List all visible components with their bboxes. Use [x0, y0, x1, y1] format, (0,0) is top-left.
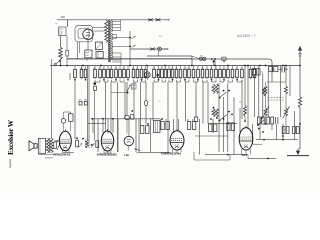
svg-text:AW: AW — [61, 15, 66, 19]
cap arrow a — [79, 143, 83, 148]
wire antenna coil feed — [299, 66, 301, 97]
capacitor row C20 — [257, 117, 260, 124]
capacitor C1 filter 4uF — [85, 50, 92, 58]
resistor R29 — [202, 66, 204, 70]
capacitor C12 electrolytic — [281, 67, 283, 73]
resistor R23 — [176, 66, 178, 70]
screened lead double line — [86, 66, 88, 140]
wire vertical v43 x245 — [244, 66, 246, 106]
svg-text:5: 5 — [241, 68, 242, 70]
resistor R34 — [223, 66, 225, 70]
transformer T-net core — [108, 20, 110, 62]
tube V2 pins — [103, 150, 105, 153]
svg-text:W: W — [136, 153, 138, 155]
antenna coil L-ant — [298, 97, 301, 108]
resistor R31 — [211, 66, 213, 70]
wire y144.7 right — [253, 143, 262, 145]
svg-text:50: 50 — [175, 68, 177, 70]
wire tap bus x120 — [120, 20, 122, 31]
transformer T-net primary — [105, 21, 108, 43]
wire main HT bus y65.5 — [50, 65, 300, 67]
resistor R-line (fusible) — [59, 47, 63, 59]
output transformer Tr2 core — [48, 138, 50, 153]
wire vertical v11 x146 — [145, 105, 147, 124]
resistor R1 — [74, 66, 76, 70]
wire vertical v45 x248 — [247, 66, 249, 129]
lamp L3 on y49 — [150, 48, 155, 51]
wire vertical v54 x280.5 — [280, 66, 282, 117]
resistor R17 — [153, 66, 155, 70]
wire vertical v47 x254.5 — [254, 74, 256, 117]
junction dots bottom right — [258, 128, 260, 130]
wire vertical v1 x70 — [69, 73, 71, 80]
resistor R22 — [172, 66, 174, 70]
svg-text:2: 2 — [210, 68, 211, 70]
tube V1 RENS1264 — [59, 131, 71, 151]
wire IFT link top — [267, 81, 286, 83]
wire vertical v35 x199.5 — [199, 119, 201, 155]
wire vertical v23 x113 — [112, 119, 114, 133]
wire vertical v9 x140.5 — [140, 82, 142, 126]
svg-text:550: 550 — [86, 55, 89, 57]
wire IFT mids — [265, 94, 267, 108]
svg-text:50: 50 — [123, 68, 125, 70]
tube V4 pins — [172, 149, 174, 152]
wire y152.4 mid — [138, 151, 170, 153]
pilot lamps B — [199, 57, 202, 60]
wire vertical v24 x118 — [117, 119, 119, 152]
resistor R26 — [188, 66, 190, 70]
resistor R21 — [168, 66, 170, 70]
resistor R10 — [119, 66, 121, 70]
svg-text:AL4: AL4 — [242, 153, 248, 157]
resistor R30 — [206, 66, 208, 70]
wire y92.5 link — [111, 92, 128, 94]
antenna A — [299, 50, 301, 66]
field coil frame — [38, 138, 45, 153]
wire vertical v58 x294.5 — [294, 111, 296, 140]
wire vertical v3 x105.5 — [105, 82, 107, 131]
IF transformer winding P1 — [264, 86, 267, 94]
wire vertical v42 x242 — [241, 80, 243, 119]
resistor R12 — [127, 66, 129, 70]
resistor R18 — [158, 66, 160, 70]
resistor R28 — [197, 66, 199, 70]
caps left of V5 b — [227, 123, 230, 131]
svg-text:2: 2 — [136, 68, 137, 70]
resistor R35 — [227, 66, 229, 70]
wire vertical v22 x108 — [107, 119, 109, 134]
wire heater drop pair — [76, 42, 78, 59]
svg-text:1: 1 — [103, 68, 104, 70]
svg-text:Dkr: Dkr — [239, 102, 242, 104]
svg-text:4: 4 — [184, 68, 185, 70]
lamp L2 on y20 — [156, 18, 161, 21]
capacitor C-mains — [66, 51, 69, 57]
wire vertical v19 x93 — [92, 119, 94, 133]
junction dots on buses — [60, 65, 62, 67]
wire y123.6 right — [208, 123, 237, 125]
wire OT to bus — [51, 59, 53, 138]
switch S1 mains — [54, 64, 56, 66]
variable arrow IFT2 — [283, 107, 290, 119]
variable arrow IFT1 — [262, 107, 269, 119]
transformer T-net secondary winding b — [111, 34, 112, 41]
junction dot tap b — [129, 45, 131, 47]
wire vertical v56 x286 — [285, 66, 287, 82]
resistor R39 — [250, 66, 252, 70]
grid cap V1 — [61, 119, 66, 124]
transformer T-net secondary winding a — [111, 21, 112, 32]
coil L5a — [212, 84, 215, 94]
wire vertical v46 x252.5 — [252, 124, 254, 144]
wire vertical v6 x125 — [124, 82, 126, 119]
wire tap x130 vertical — [129, 31, 131, 49]
resistor R9 — [115, 66, 117, 70]
volume pot arrow — [126, 85, 130, 94]
wire x98 drop — [98, 50, 100, 52]
svg-text:0,2: 0,2 — [188, 68, 190, 70]
svg-text:0,1: 0,1 — [115, 68, 117, 70]
capacitor block C11 — [269, 67, 273, 72]
resistor R37 — [236, 66, 238, 70]
capacitor pair at earth — [293, 127, 296, 134]
output transformer Tr2 secondary — [50, 138, 53, 152]
capacitor C22 — [275, 117, 277, 124]
wire vertical v57 x290 — [289, 66, 291, 96]
IF transformer winding S1 — [284, 86, 287, 94]
svg-text:0,1: 0,1 — [227, 68, 229, 70]
resistor R14 — [137, 66, 139, 70]
svg-text:0,5: 0,5 — [153, 68, 155, 70]
capacitor row C21 — [267, 117, 270, 124]
wire vertical v39 x227.8 — [227, 83, 229, 152]
wire vertical v28 x150.5 — [150, 119, 152, 152]
svg-text:Excelsior W: Excelsior W — [7, 119, 15, 155]
tube V1 pins — [62, 150, 64, 153]
wire vertical v38 x223.5 — [223, 97, 225, 152]
svg-text:LGr: LGr — [124, 153, 129, 157]
resistor R3 — [85, 66, 87, 70]
wire vertical v12 x153 — [152, 82, 154, 121]
switch SW3 — [258, 120, 265, 126]
ground symbol — [296, 151, 300, 155]
pot arrow tone — [57, 143, 60, 150]
svg-text:2: 2 — [161, 68, 162, 70]
wire rect anode — [87, 40, 89, 51]
resistor R5 — [99, 66, 101, 70]
transformer T-net secondary winding c — [111, 42, 112, 49]
svg-text:4a: 4a — [86, 59, 88, 61]
wire vertical v51 x268.2 — [267, 72, 269, 117]
wire selector drop x67.5 — [67, 20, 69, 27]
capacitor C-ot — [54, 142, 57, 149]
wire x130 to bus — [129, 49, 131, 66]
wire resistor-pair bends — [94, 80, 96, 82]
wire vertical v53 x276.7 — [276, 124, 278, 140]
coupling caps left of V4 — [141, 126, 144, 134]
wire vertical v37 x219 — [218, 83, 220, 152]
capacitor C-k2 — [96, 141, 99, 148]
wire y49 end arrow — [164, 48, 169, 50]
capacitor pair under IFT2 — [282, 127, 285, 134]
svg-text:3: 3 — [110, 68, 111, 70]
resistor R6 — [103, 66, 105, 70]
wire vertical v41 x240 — [239, 108, 241, 132]
transformer core hatching — [108, 21, 111, 63]
pickup arrow — [135, 149, 141, 151]
wire vertical v21 x103 — [102, 119, 104, 133]
wire selector to fuse — [60, 36, 62, 48]
label WD DM — [79, 102, 82, 106]
wire earth drop — [299, 108, 301, 150]
resistor R32 — [215, 66, 217, 70]
svg-text:RENS1264 E2: RENS1264 E2 — [54, 153, 71, 157]
label box BW FS — [131, 84, 136, 89]
choke Dr1 — [86, 139, 89, 148]
svg-text:3: 3 — [236, 68, 237, 70]
resistor R19 — [161, 66, 163, 70]
switch box mains plug — [96, 42, 103, 50]
wire vertical v14 x177 — [176, 82, 178, 131]
filter box left — [154, 121, 161, 133]
wire vertical v13 x168 — [167, 82, 169, 152]
loudspeaker LS — [29, 141, 34, 151]
wire vertical v17 x203 — [202, 82, 204, 124]
capacitor block C10 — [252, 69, 255, 76]
svg-text:Ingelen: Ingelen — [8, 159, 12, 169]
svg-text:Auf 150V ~ ?: Auf 150V ~ ? — [237, 34, 256, 38]
wire vertical v49 x262.8 — [262, 73, 264, 117]
wire x121 to heater — [120, 62, 122, 66]
resistor R11 — [123, 66, 125, 70]
svg-text:8: 8 — [171, 68, 172, 70]
wire heater tap y20 right segment — [112, 19, 169, 21]
tube V5 pins — [241, 149, 243, 155]
resistor R40 — [254, 66, 256, 70]
switch SW2 — [220, 115, 228, 121]
resistor R33 — [219, 66, 221, 70]
wire y152.5 under T1 — [63, 152, 75, 154]
IF coupling dashes — [268, 96, 284, 98]
capacitor at 196 — [194, 117, 197, 122]
wire vertical v16 x196 — [195, 82, 197, 117]
tube V5 AL4 — [239, 128, 253, 150]
resistor R24 — [180, 66, 182, 70]
tube V4 RENS1374d — [170, 131, 184, 150]
wire vertical v44 x245 — [244, 116, 246, 121]
junction dot HT y59 — [211, 58, 213, 60]
wire vertical v33 x187.9 — [187, 119, 189, 122]
diamond junction — [156, 73, 159, 76]
wire heater loop outer — [75, 26, 93, 42]
grid cap V3 — [125, 115, 130, 120]
svg-text:5: 5 — [223, 68, 224, 70]
transformer secondary taps — [112, 21, 120, 23]
wire vertical v4 x111 — [110, 82, 112, 131]
svg-text:B8: B8 — [200, 55, 202, 57]
resistor R15 — [141, 66, 143, 70]
svg-text:Feld2000: Feld2000 — [45, 157, 53, 159]
caps left of V5 — [209, 124, 212, 132]
resistor R36 — [232, 66, 234, 70]
svg-text:30: 30 — [215, 68, 217, 70]
wire heater y58.7 — [67, 58, 192, 60]
resistor R7 — [107, 66, 109, 70]
wire vertical v52 x272 — [271, 124, 273, 130]
oval component mid — [144, 101, 147, 106]
wire vertical v27 x139 — [138, 119, 140, 152]
caps pair mid V4 — [161, 122, 164, 130]
wire y20 end arrow — [165, 19, 170, 21]
resistor R20 — [165, 66, 167, 70]
capacitor C-k1 — [76, 140, 79, 147]
junction dot tap a — [129, 37, 131, 39]
wire y158.4 — [248, 157, 276, 159]
wire y118.8 — [91, 118, 160, 120]
wire y123.7 — [88, 123, 106, 125]
svg-text:4: 4 — [99, 68, 100, 70]
wire y139.6 far right — [256, 139, 298, 141]
wire vertical v7 x127 — [126, 82, 128, 115]
wire HT line y59 — [67, 59, 272, 82]
svg-text:125: 125 — [59, 34, 62, 36]
wire vertical v20 x98 — [97, 119, 99, 152]
wire y49 dial lamp line — [130, 48, 168, 50]
wire vertical v29 x160.5 — [160, 119, 162, 122]
wire y154.6 — [205, 154, 248, 156]
wire y160 — [194, 159, 230, 161]
wire vertical v10 x146 — [145, 82, 147, 101]
coil L6 — [262, 87, 265, 96]
IF transformer winding S2 — [284, 108, 287, 116]
resistor R2 — [81, 66, 83, 70]
wire vertical v18 x208 — [207, 82, 209, 124]
rectifier tube V6 — [83, 29, 93, 39]
svg-text:7A8/RENS1374d: 7A8/RENS1374d — [161, 152, 181, 156]
choke Dkr — [244, 106, 247, 117]
coil L5b — [212, 109, 215, 118]
lamp L1 on y20 — [148, 18, 153, 21]
transformer T-net secondary winding d — [111, 49, 112, 60]
wire vertical v34 x192.9 — [192, 119, 194, 122]
tube V2 RENS1823d — [101, 131, 113, 151]
wire heater line y56 — [147, 55, 192, 57]
dashed grid line x196 — [195, 95, 197, 117]
resistor R4 — [94, 66, 96, 70]
resistor R13 — [133, 66, 135, 70]
wire drop x192 heater — [191, 56, 193, 66]
IF transformer winding P2 — [264, 108, 267, 116]
svg-text:6: 6 — [132, 68, 133, 70]
cap arrow b — [91, 143, 95, 148]
wire vertical v30 x166 — [165, 119, 167, 122]
junction blob — [93, 82, 96, 85]
wire x117 drop — [116, 35, 118, 39]
wire vertical v50 x260 — [259, 117, 261, 140]
wire vertical v15 x185.5 — [185, 82, 187, 122]
wire vertical v48 x258.8 — [258, 66, 260, 117]
wire vertical v25 x129 — [128, 119, 130, 135]
output transformer Tr2 primary — [46, 138, 49, 152]
wire vertical v40 x234 — [233, 97, 235, 155]
resistor R27 — [193, 66, 195, 70]
resistor R25 — [184, 66, 186, 70]
wire drop x215 — [214, 59, 216, 66]
resistor on HT y59 — [222, 57, 226, 60]
wire vertical v31 x173.5 — [173, 119, 175, 133]
svg-text:1: 1 — [164, 68, 165, 70]
box below plug — [96, 52, 103, 59]
switch SW1 — [220, 92, 227, 98]
svg-text:7: 7 — [197, 68, 198, 70]
wire vertical v8 x134 — [133, 82, 135, 119]
scale lamp L4 on y49 — [158, 47, 162, 51]
wire heater loop inner — [78, 29, 89, 39]
coupling caps right of V4 — [187, 122, 190, 130]
wire mains top y20 left segment — [57, 19, 112, 21]
resistor R38 — [241, 66, 243, 70]
tube V1 grid wire — [54, 140, 60, 142]
resistor R8 — [111, 66, 113, 70]
wire vertical v36 x213 — [212, 119, 214, 133]
tube V3 LG1 — [128, 146, 130, 151]
resistor R16 — [145, 66, 147, 70]
wire vertical v55 x283 — [282, 124, 284, 140]
socket circle II — [146, 66, 148, 73]
wire vertical v32 x178.5 — [178, 119, 180, 131]
wire vertical v26 x136 — [135, 119, 137, 152]
wire vertical v2 x75 — [74, 80, 76, 139]
svg-text:Ph: Ph — [55, 24, 57, 26]
svg-text:2×RENS1823dE2: 2×RENS1823dE2 — [97, 154, 118, 157]
wire vertical v5 x117.5 — [117, 82, 119, 152]
